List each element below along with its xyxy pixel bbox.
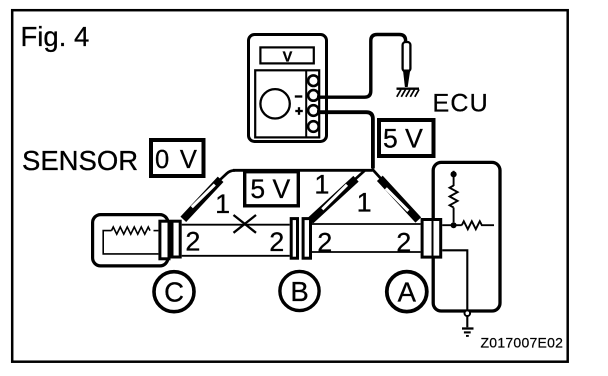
svg-text:2: 2: [317, 228, 332, 258]
svg-text:2: 2: [396, 228, 411, 258]
svg-text:1: 1: [215, 189, 230, 219]
svg-text:1: 1: [357, 188, 372, 218]
svg-text:2: 2: [269, 227, 284, 257]
svg-text:Fig. 4: Fig. 4: [21, 21, 90, 52]
svg-text:0 V: 0 V: [155, 146, 199, 174]
svg-text:Z017007E02: Z017007E02: [481, 335, 564, 351]
svg-text:SENSOR: SENSOR: [22, 145, 138, 176]
svg-text:ECU: ECU: [433, 89, 489, 117]
svg-text:V: V: [283, 49, 293, 65]
svg-text:1: 1: [314, 170, 329, 200]
svg-text:B: B: [290, 276, 308, 307]
svg-text:5 V: 5 V: [383, 124, 423, 154]
svg-text:C: C: [164, 277, 184, 308]
svg-text:A: A: [398, 277, 417, 308]
svg-text:5 V: 5 V: [250, 174, 290, 204]
svg-text:2: 2: [185, 227, 200, 257]
